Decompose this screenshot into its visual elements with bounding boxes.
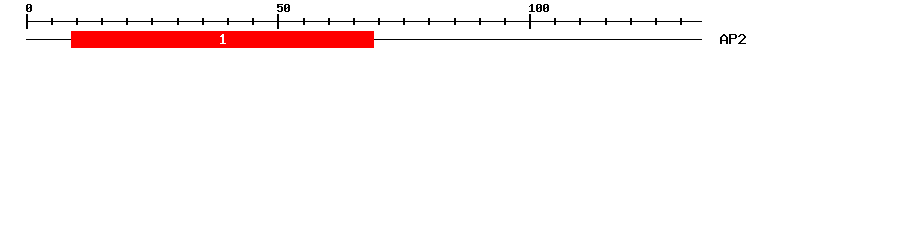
protein backbone line <box>26 39 702 40</box>
ruler label 50 <box>277 4 290 12</box>
ruler major tick at 50 <box>277 14 279 29</box>
background <box>0 0 900 58</box>
ruler major tick at 0 <box>26 14 28 29</box>
ruler minor ticks every 5 aa <box>51 18 682 25</box>
sequence name AP2 <box>720 34 746 44</box>
ruler axis line <box>26 21 702 22</box>
domain 1 red bar (aa 9-69) <box>71 31 374 48</box>
ruler major tick at 100 <box>529 14 531 29</box>
domain number 1 <box>220 34 226 44</box>
ruler label 100 <box>529 4 549 12</box>
ruler label 0 <box>26 4 32 12</box>
